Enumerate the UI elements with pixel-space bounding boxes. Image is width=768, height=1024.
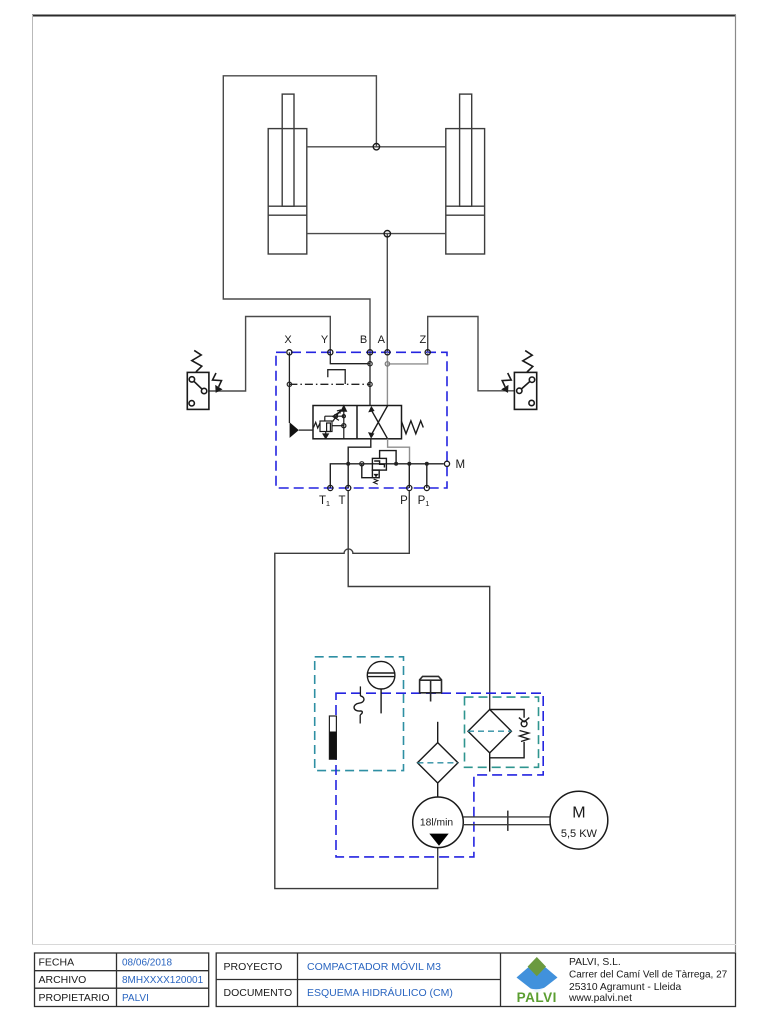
cylinder CIL1 rod <box>282 94 294 206</box>
node orifice tap <box>360 462 364 466</box>
node on pilot line left <box>287 382 291 386</box>
title block left table <box>35 953 209 1007</box>
valve V1 left section reducer <box>314 406 347 439</box>
bypass check valve <box>490 710 524 718</box>
node on pilot line right <box>368 382 372 386</box>
pilot dash-dot line <box>289 383 370 385</box>
port Y <box>328 350 333 355</box>
svg-text:M: M <box>572 805 585 822</box>
motor M1 <box>550 791 608 849</box>
pump P1 <box>413 797 464 848</box>
wire B down to valve <box>369 352 371 405</box>
wire A to bottom junction <box>386 234 388 353</box>
svg-text:ESQUEMA HIDRÁULICO (CM): ESQUEMA HIDRÁULICO (CM) <box>307 986 453 999</box>
cylinder CIL2 rod <box>460 94 472 206</box>
wire A down to valve (grey) <box>386 364 388 406</box>
node top junction <box>373 144 379 150</box>
limit switch FC2 (right) <box>502 351 537 410</box>
svg-text:www.palvi.net: www.palvi.net <box>568 993 632 1004</box>
jumper bracket <box>328 370 345 384</box>
compensator drain loop lower <box>362 464 373 478</box>
svg-text:DOCUMENTO: DOCUMENTO <box>224 987 293 999</box>
valve V1 pilot triangle <box>290 422 299 438</box>
port B <box>367 350 372 355</box>
port P <box>407 485 412 490</box>
svg-text:08/06/2018: 08/06/2018 <box>122 958 172 969</box>
PALVI logo <box>517 957 558 1005</box>
bottom gallery bus to M <box>330 464 444 488</box>
spring of FC2 <box>523 351 533 372</box>
wire valve to P gallery (grey) <box>388 439 410 464</box>
svg-text:PALVI: PALVI <box>122 993 149 1004</box>
actuator arrow of FC2 <box>502 373 511 387</box>
wire T return line <box>348 491 490 710</box>
svg-text:18l/min: 18l/min <box>420 818 453 829</box>
tank unit boundary (teal) <box>315 657 404 771</box>
port A <box>385 350 390 355</box>
svg-text:ARCHIVO: ARCHIVO <box>39 974 87 986</box>
port P1 <box>424 485 429 490</box>
valve V1 body <box>313 406 402 439</box>
manifold block boundary <box>276 352 447 488</box>
cylinder CIL2 body <box>446 94 485 254</box>
svg-text:COMPACTADOR MÓVIL M3: COMPACTADOR MÓVIL M3 <box>307 960 441 973</box>
svg-text:PALVI: PALVI <box>517 990 557 1005</box>
node A <box>385 362 389 366</box>
svg-text:5,5 KW: 5,5 KW <box>561 828 598 840</box>
level indicator <box>359 686 361 723</box>
svg-text:8MHXXXX120001: 8MHXXXX120001 <box>122 975 204 986</box>
svg-text:Carrer del Camí Vell de Tàrreg: Carrer del Camí Vell de Tàrrega, 27 <box>569 970 728 981</box>
node Y-B <box>368 362 372 366</box>
wire rod-side line between cylinders <box>223 76 445 353</box>
port Z <box>425 350 430 355</box>
port X <box>287 350 292 355</box>
pump triangle <box>429 834 448 846</box>
svg-text:1: 1 <box>425 499 429 508</box>
wire A to Z internal (grey) <box>387 352 427 364</box>
power unit boundary (blue) <box>336 693 543 857</box>
wire triangle to valve <box>299 429 313 431</box>
cylinder CIL2 piston <box>446 205 485 207</box>
svg-text:M: M <box>456 459 466 471</box>
spring of FC1 <box>192 350 202 371</box>
svg-text:Z: Z <box>420 334 427 346</box>
pilot line X internal <box>289 352 370 423</box>
level gauge bar <box>329 716 336 759</box>
svg-text:P: P <box>400 495 408 507</box>
node bottom junction <box>384 231 390 237</box>
svg-text:PROPIETARIO: PROPIETARIO <box>39 992 110 1004</box>
limit switch FC1 (left) <box>187 350 221 409</box>
valve V1 cross arrows <box>368 406 423 439</box>
svg-text:X: X <box>284 334 292 346</box>
svg-text:B: B <box>360 334 367 346</box>
port T1 <box>328 485 333 490</box>
svg-text:PALVI, S.L.: PALVI, S.L. <box>569 957 621 968</box>
wire left switch to Y port <box>209 317 330 392</box>
svg-text:T: T <box>338 495 345 507</box>
wire P pressure line with bridge <box>275 491 438 889</box>
node pilot-bus <box>394 462 398 466</box>
wire B to top bus <box>223 76 376 353</box>
svg-text:PROYECTO: PROYECTO <box>224 961 283 973</box>
svg-text:1: 1 <box>326 499 330 508</box>
svg-text:A: A <box>378 334 386 346</box>
svg-text:FECHA: FECHA <box>39 957 75 969</box>
wire P drop <box>408 464 410 488</box>
valve V1 spring <box>402 421 424 434</box>
cylinder CIL1 body <box>268 94 307 254</box>
compensator pilot loop upper <box>380 451 397 464</box>
wire Y to B internal <box>330 352 370 363</box>
wire valve to T gallery <box>348 439 371 488</box>
wire piston-side line between cylinders <box>307 233 446 235</box>
address block <box>568 957 728 1004</box>
node P1 junction <box>425 462 429 466</box>
return filter boundary (teal) <box>465 697 539 767</box>
wire P1 drop <box>426 464 428 488</box>
suction strainer <box>417 722 458 798</box>
breather cap <box>420 676 442 701</box>
shaft coupling <box>463 811 550 831</box>
pressure gauge <box>367 661 395 713</box>
port M <box>444 461 449 466</box>
title block right table <box>216 953 735 1007</box>
actuator arrow of FC1 <box>213 373 222 387</box>
compensator valve <box>362 451 396 485</box>
wire right switch to Z port <box>428 317 515 391</box>
svg-text:25310 Agramunt - Lleida: 25310 Agramunt - Lleida <box>569 982 681 993</box>
cylinder CIL1 piston <box>268 205 307 207</box>
node P junction <box>407 462 411 466</box>
return filter <box>468 710 529 772</box>
port T <box>346 485 351 490</box>
svg-text:Y: Y <box>321 334 329 346</box>
node T junction <box>346 462 350 466</box>
